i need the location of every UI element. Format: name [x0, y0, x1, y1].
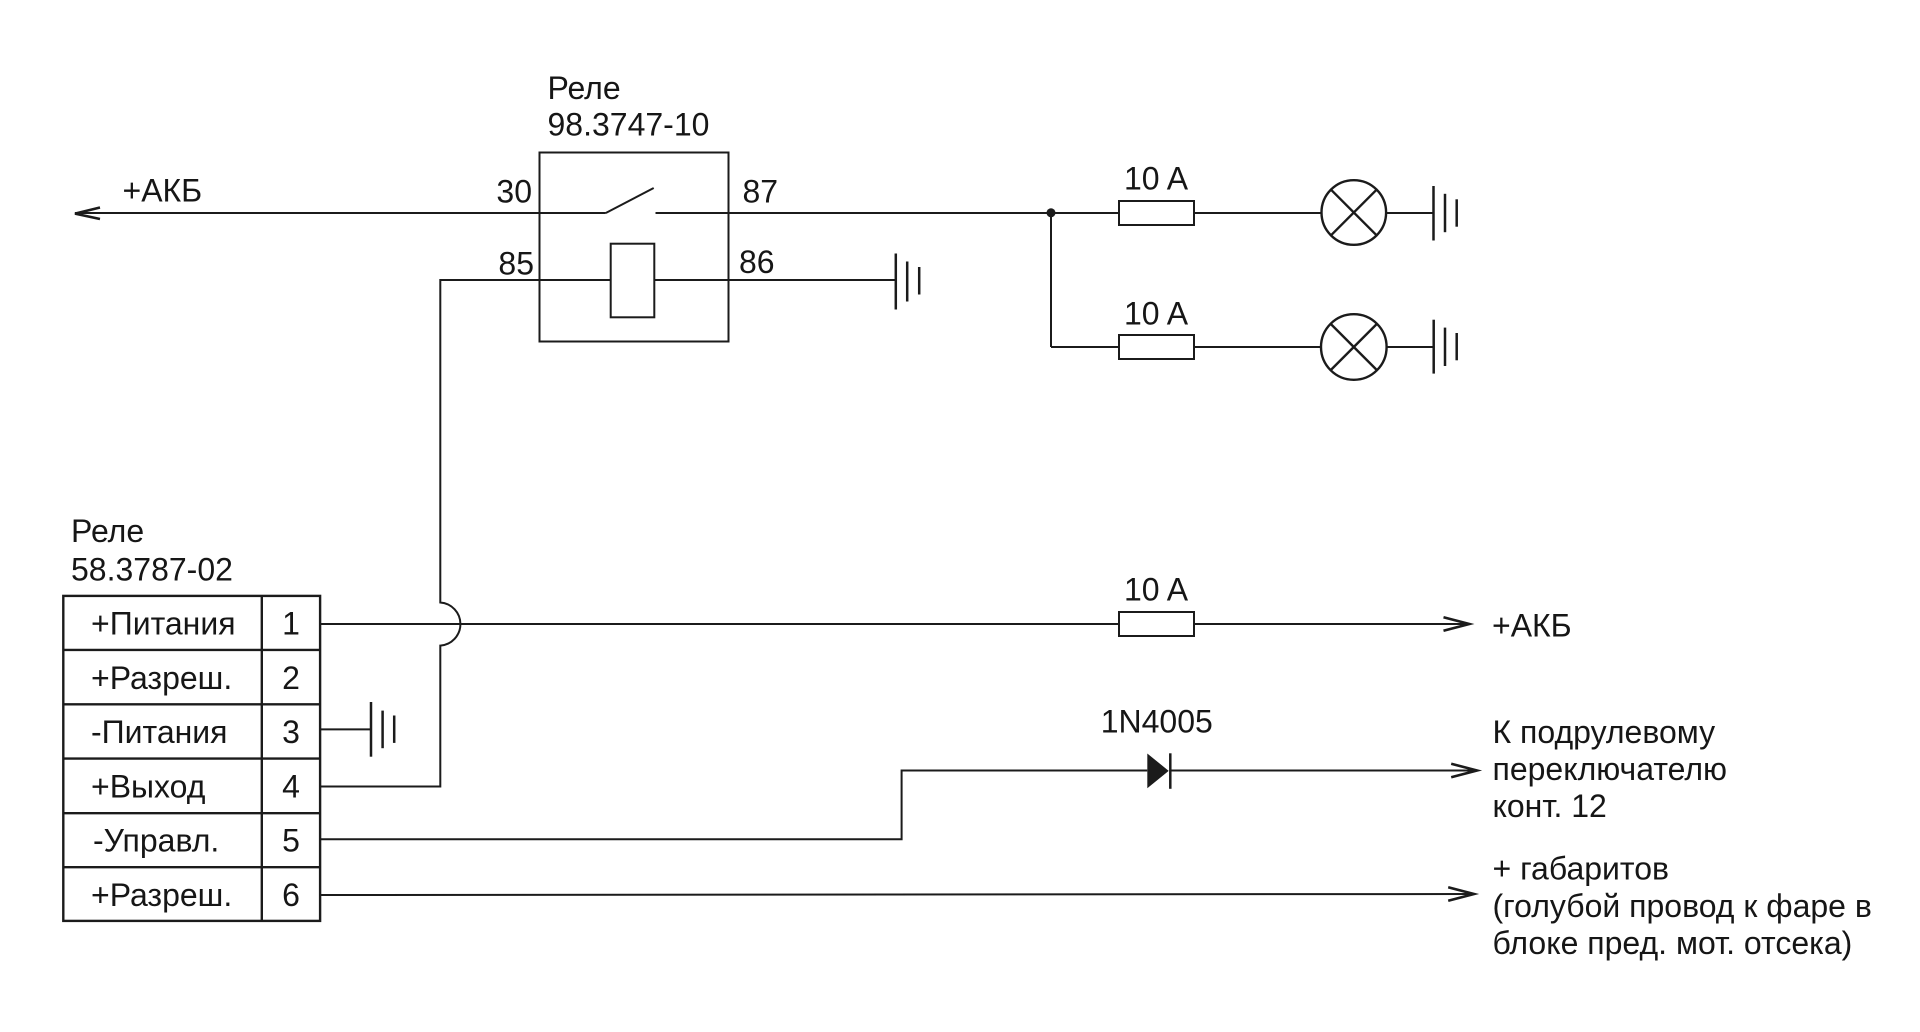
- svg-text:+Разреш.: +Разреш.: [91, 660, 232, 696]
- svg-text:4: 4: [282, 768, 300, 804]
- svg-text:переключателю: переключателю: [1493, 751, 1728, 787]
- svg-text:10 A: 10 A: [1124, 296, 1189, 332]
- wire connector pin 1 to +AKB (right) through fuse F3: [320, 623, 1469, 625]
- svg-text:85: 85: [498, 246, 534, 282]
- svg-text:1: 1: [282, 606, 300, 642]
- switch contact inside relay K1: [540, 212, 606, 214]
- connector table of relay 58.3787-02: [63, 596, 320, 921]
- svg-text:87: 87: [743, 174, 779, 210]
- relay coil K1: [611, 244, 655, 318]
- svg-text:98.3747-10: 98.3747-10: [548, 107, 710, 143]
- svg-text:6: 6: [282, 877, 300, 913]
- wire branch 2 to fuse F2: [1051, 346, 1119, 348]
- svg-text:+Питания: +Питания: [91, 606, 236, 642]
- wire diode VD1 to steering column switch: [1170, 770, 1477, 772]
- svg-text:-Управл.: -Управл.: [93, 823, 219, 859]
- svg-text:86: 86: [739, 244, 775, 280]
- diode VD1: [1147, 754, 1168, 789]
- lamp HL1: [1322, 180, 1387, 245]
- svg-text:+АКБ: +АКБ: [123, 173, 203, 209]
- wire junction down to second branch: [1050, 213, 1052, 347]
- wire fuse F2 to lamp HL2: [1194, 346, 1322, 348]
- ground (lamp HL2): [1434, 320, 1457, 374]
- ground (connector pin 3): [371, 702, 394, 757]
- wire relay pin 86 to ground: [729, 279, 896, 281]
- arrow head pointing right (sidelights feed): [1448, 887, 1474, 900]
- svg-text:Реле: Реле: [71, 513, 144, 549]
- wire lamp HL1 to ground: [1386, 212, 1433, 214]
- fuse F1: [1119, 201, 1194, 225]
- arrow head pointing left (+AKB top): [75, 208, 100, 220]
- wire relay pin 87 to junction and fuse F1: [729, 212, 1120, 214]
- wire fuse F1 to lamp HL1: [1194, 212, 1322, 214]
- svg-text:+ габаритов: + габаритов: [1493, 851, 1670, 887]
- junction node: [1047, 208, 1056, 217]
- svg-text:10 A: 10 A: [1124, 161, 1189, 197]
- lamp HL2: [1321, 314, 1387, 380]
- wire connector pin 3 to ground: [320, 728, 371, 730]
- svg-text:10 A: 10 A: [1124, 572, 1189, 608]
- arrow head pointing right (to steering column switch): [1451, 764, 1477, 777]
- wire connector pin 6 to sidelights feed: [320, 894, 1474, 895]
- wire relay pin 85 down to connector pin 4 (hops over +AKB wire): [320, 280, 540, 787]
- ground (lamp HL1): [1434, 186, 1457, 241]
- arrow head pointing right (+AKB right): [1444, 617, 1470, 630]
- svg-text:30: 30: [496, 174, 532, 210]
- fuse F3: [1119, 612, 1194, 636]
- svg-text:+АКБ: +АКБ: [1492, 608, 1572, 644]
- wire connector pin 5 to diode VD1: [320, 771, 1147, 840]
- svg-text:1N4005: 1N4005: [1101, 703, 1213, 739]
- svg-text:3: 3: [282, 714, 300, 750]
- svg-text:+Выход: +Выход: [91, 768, 206, 804]
- svg-text:блоке пред. мот. отсека): блоке пред. мот. отсека): [1493, 925, 1853, 961]
- wire lamp HL2 to ground: [1387, 346, 1434, 348]
- svg-text:К подрулевому: К подрулевому: [1493, 714, 1716, 750]
- svg-text:(голубой провод к фаре в: (голубой провод к фаре в: [1493, 888, 1872, 924]
- relay K1 body box: [540, 153, 729, 342]
- svg-text:5: 5: [282, 823, 300, 859]
- fuse F2: [1119, 335, 1194, 359]
- svg-text:58.3787-02: 58.3787-02: [71, 552, 233, 588]
- svg-text:+Разреш.: +Разреш.: [91, 877, 232, 913]
- svg-text:-Питания: -Питания: [91, 714, 228, 750]
- ground (relay pin 86): [896, 254, 919, 310]
- svg-text:2: 2: [282, 660, 300, 696]
- svg-text:Реле: Реле: [548, 70, 621, 106]
- wire +AKB (top left) from arrow to relay pin 30: [75, 212, 540, 214]
- svg-text:конт. 12: конт. 12: [1493, 788, 1607, 824]
